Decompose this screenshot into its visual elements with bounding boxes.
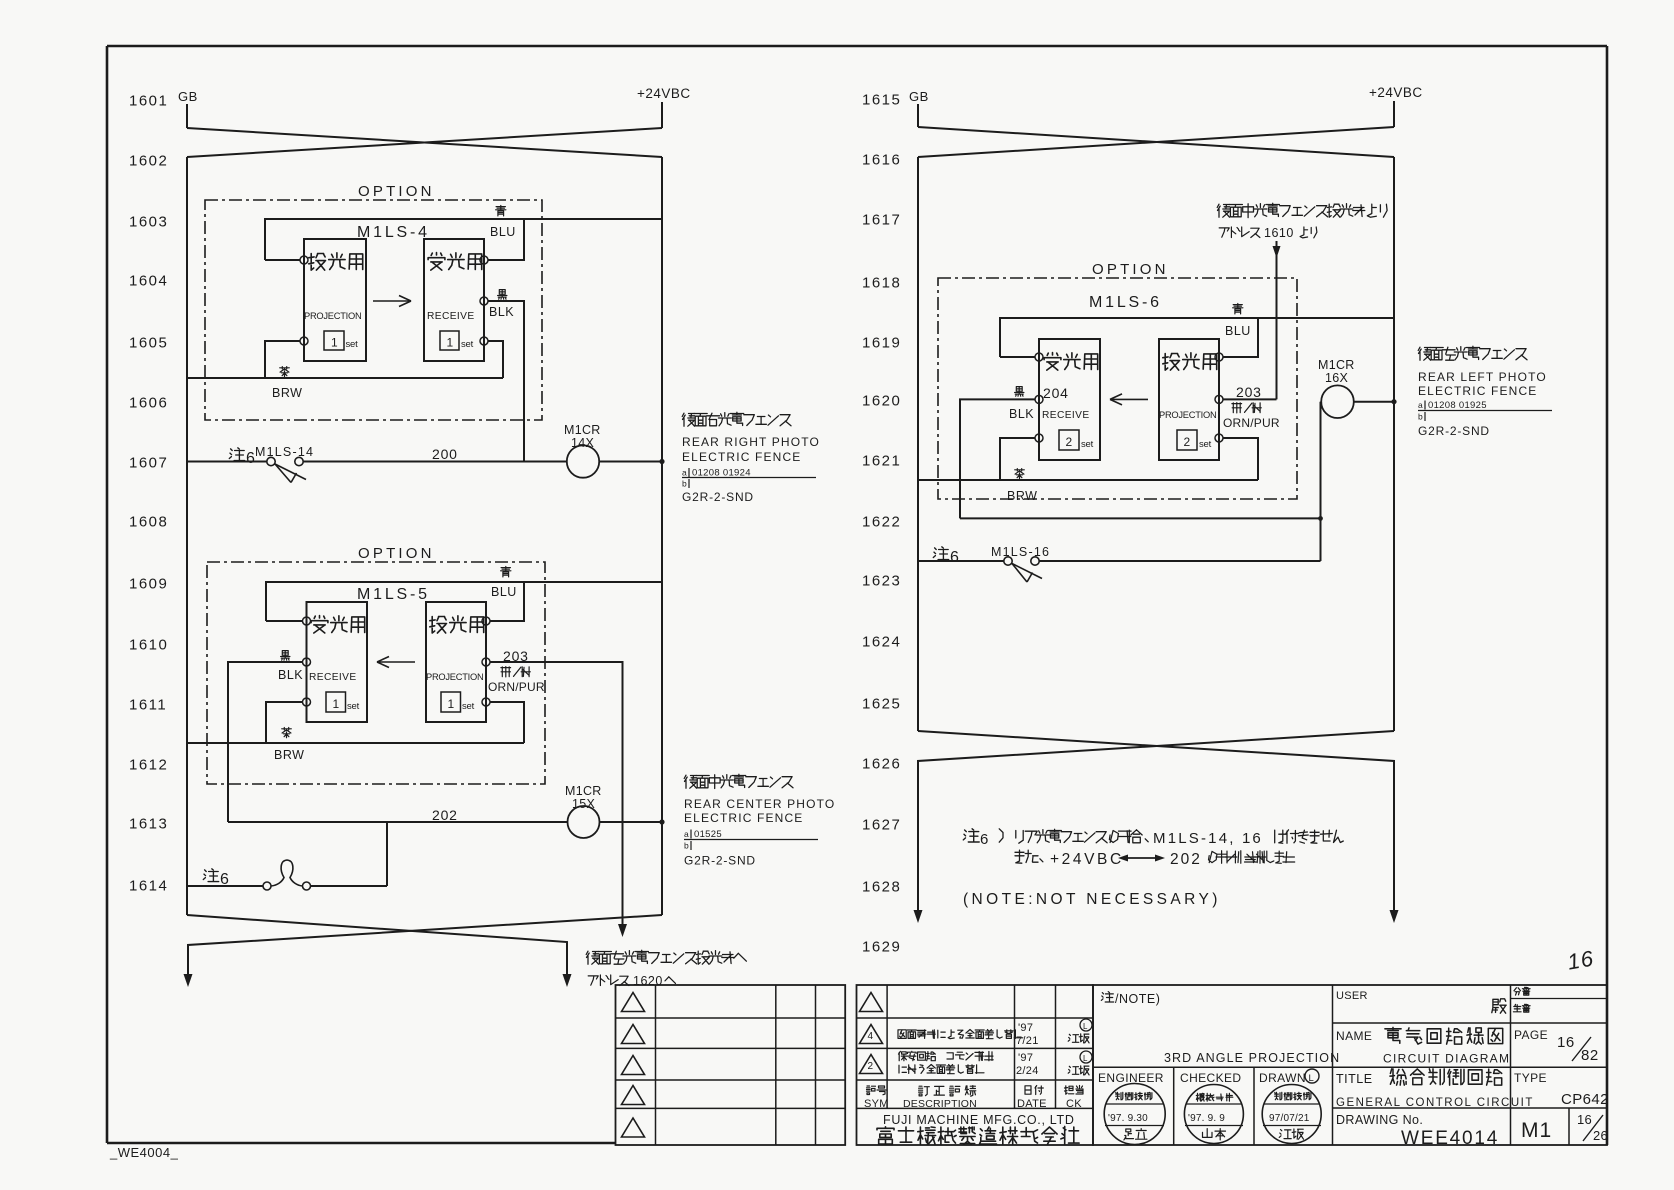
note ref 6 (rung 1607) <box>229 448 244 461</box>
wire BRW 1606 to left rail (M1LS-4) <box>187 377 503 379</box>
wire bottom crossover A (right circuit) <box>918 731 1394 910</box>
pin projection set (M1LS-5) <box>482 698 490 706</box>
svg-text:1622: 1622 <box>862 514 901 531</box>
svg-text:'97. 9.30: '97. 9.30 <box>1108 1113 1148 1124</box>
svg-text:1: 1 <box>333 697 340 711</box>
svg-text:1617: 1617 <box>862 212 901 229</box>
jumper plug with loop (1614) <box>263 882 271 890</box>
svg-text:ELECTRIC FENCE: ELECTRIC FENCE <box>684 811 803 825</box>
wire receive set pin to BRW (M1LS-5) <box>266 702 302 743</box>
svg-text:DRAWN: DRAWN <box>1259 1071 1306 1085</box>
label black BLK (M1LS-6) <box>1015 387 1024 397</box>
sensor block RECEIVE (M1LS-4) <box>424 239 484 361</box>
svg-text:16: 16 <box>1577 1112 1592 1127</box>
pin receive mid 204 BLK (M1LS-6) <box>1035 395 1043 403</box>
wire M1LS-16 to coil feed <box>1039 560 1321 562</box>
svg-text:WEE4014: WEE4014 <box>1401 1128 1499 1149</box>
pin receive top (M1LS-5) <box>303 617 311 625</box>
svg-text:BLU: BLU <box>1225 324 1251 338</box>
wire 202 branch down to 1614 jumper <box>386 822 388 886</box>
svg-text:M1LS-16: M1LS-16 <box>991 545 1050 559</box>
svg-text:204: 204 <box>1043 385 1069 401</box>
svg-text:M1LS-4: M1LS-4 <box>357 224 430 241</box>
svg-text:'97: '97 <box>1018 1022 1033 1034</box>
beam arrow projection to receive (M1LS-4) <box>373 300 411 302</box>
svg-text:200: 200 <box>432 446 458 462</box>
wire right supply rail (left circuit) <box>661 157 663 915</box>
svg-text:26: 26 <box>1593 1128 1608 1143</box>
drawn stamp <box>1262 1085 1321 1144</box>
svg-text:1618: 1618 <box>862 275 901 292</box>
svg-text:ELECTRIC FENCE: ELECTRIC FENCE <box>1418 384 1537 398</box>
svg-text:1620: 1620 <box>633 974 663 988</box>
svg-text:a: a <box>682 468 687 478</box>
svg-text:1: 1 <box>448 697 455 711</box>
label blue BLU (M1LS-5) <box>501 567 511 577</box>
svg-text:1602: 1602 <box>129 153 168 170</box>
svg-text:_WE4004_: _WE4004_ <box>109 1145 179 1160</box>
svg-text:GB: GB <box>909 89 929 104</box>
svg-text:REAR RIGHT PHOTO: REAR RIGHT PHOTO <box>682 435 820 449</box>
svg-text:15X: 15X <box>572 797 596 811</box>
svg-text:/NOTE): /NOTE) <box>1115 992 1160 1006</box>
label blue BLU (M1LS-4) <box>496 206 506 216</box>
sensor block RECEIVE (M1LS-5) <box>307 602 368 722</box>
svg-text:1601: 1601 <box>129 93 168 110</box>
wire coil feed down to 1623 switch <box>1320 402 1322 561</box>
svg-text:1611: 1611 <box>129 697 167 714</box>
svg-text:1603: 1603 <box>129 214 168 231</box>
svg-text:FUJI MACHINE MFG.CO., LTD: FUJI MACHINE MFG.CO., LTD <box>883 1113 1075 1127</box>
wire left rail to jumper (1614) <box>187 885 263 887</box>
svg-text:L: L <box>1083 1054 1088 1063</box>
wire +24VBC stub down (left) <box>661 102 663 128</box>
label black BLK (M1LS-5) <box>281 651 290 661</box>
beam arrow projection to receive (M1LS-5) <box>377 661 415 663</box>
svg-text:202: 202 <box>432 807 458 823</box>
svg-text:+24VBC: +24VBC <box>637 86 691 101</box>
svg-text:2: 2 <box>868 1061 874 1072</box>
svg-text:BRW: BRW <box>1007 489 1037 503</box>
pin projection top (M1LS-6) <box>1215 353 1223 361</box>
wire jumper to 202 branch (1614) <box>311 885 388 887</box>
wire left supply rail (left circuit) <box>186 157 188 915</box>
sensor block RECEIVE (M1LS-6) <box>1039 339 1100 460</box>
left rung numbers 1601-1614 <box>129 93 168 895</box>
svg-text:(NOTE:NOT NECESSARY): (NOTE:NOT NECESSARY) <box>963 891 1221 908</box>
svg-text:G2R-2-SND: G2R-2-SND <box>684 854 756 868</box>
svg-text:BRW: BRW <box>274 748 304 762</box>
svg-text:1: 1 <box>447 336 454 350</box>
svg-text:2: 2 <box>1184 435 1191 449</box>
svg-text:82: 82 <box>1581 1047 1599 1064</box>
wire projection top to 1609 (M1LS-5) BLU <box>490 582 524 621</box>
svg-text:ENGINEER: ENGINEER <box>1098 1071 1164 1085</box>
svg-text:16: 16 <box>1565 945 1595 974</box>
svg-text:PAGE: PAGE <box>1514 1028 1548 1042</box>
junction right rail 1607 <box>659 459 664 464</box>
svg-text:2: 2 <box>1066 435 1073 449</box>
svg-text:GENERAL CONTROL CIRCUIT: GENERAL CONTROL CIRCUIT <box>1336 1097 1534 1109</box>
svg-text:1610: 1610 <box>129 637 168 654</box>
svg-text:CIRCUIT DIAGRAM: CIRCUIT DIAGRAM <box>1383 1052 1510 1066</box>
wire left rail to M1LS-14 <box>187 461 267 463</box>
svg-text:DRAWING No.: DRAWING No. <box>1336 1113 1423 1127</box>
svg-text:14X: 14X <box>571 436 595 450</box>
label brown BRW (M1LS-6) <box>1015 469 1025 479</box>
svg-text:1628: 1628 <box>862 879 901 896</box>
label brown BRW (M1LS-5) <box>282 728 292 738</box>
set count box 2 (M1LS-6 projection) <box>1177 430 1197 450</box>
sensor block PROJECTION (M1LS-4) <box>304 239 366 361</box>
svg-text:BLU: BLU <box>490 225 516 239</box>
svg-text:M1CR: M1CR <box>565 784 602 798</box>
set count box 1 (M1LS-5 receive) <box>326 692 346 712</box>
svg-text:1612: 1612 <box>129 757 168 774</box>
svg-text:OPTION: OPTION <box>358 545 435 562</box>
annotation rear center photo electric fence <box>684 774 793 788</box>
wire bottom crossover B (left circuit) <box>188 915 662 974</box>
svg-text:CHECKED: CHECKED <box>1180 1071 1241 1085</box>
svg-text:a: a <box>684 829 689 839</box>
svg-text:1605: 1605 <box>129 335 168 352</box>
pin receive top (M1LS-6) <box>1035 353 1043 361</box>
wire left supply rail (right circuit) <box>917 157 919 731</box>
svg-text:L: L <box>1083 1022 1088 1031</box>
wire node 202 rung <box>228 821 567 823</box>
svg-text:1614: 1614 <box>129 878 168 895</box>
pin receive set (M1LS-4) <box>480 337 488 345</box>
annotation rear left photo electric fence <box>1418 346 1527 360</box>
wire projection mid 203 to lower-left fence projector (M1LS-5) <box>490 662 623 924</box>
svg-text:PROJECTION: PROJECTION <box>304 311 361 321</box>
wire crossover GB to right rail (right) <box>918 127 1394 157</box>
wire 1609 top feed (M1LS-5) <box>266 582 662 621</box>
svg-text:set: set <box>462 701 475 712</box>
svg-text:3RD ANGLE PROJECTION: 3RD ANGLE PROJECTION <box>1164 1051 1340 1065</box>
wire receive mid 204 BLK down to 1622 (M1LS-6) <box>960 399 1035 518</box>
svg-text:RECEIVE: RECEIVE <box>1042 410 1090 421</box>
svg-text:M1CR: M1CR <box>1318 358 1355 372</box>
svg-text:M1: M1 <box>1521 1119 1552 1142</box>
annotation rear right photo electric fence <box>682 412 791 426</box>
wire receive mid BLK down to node 202 (M1LS-5) <box>228 662 302 822</box>
svg-text:L: L <box>1309 1073 1314 1084</box>
label orange/purple (M1LS-5) <box>501 667 530 677</box>
beam arrow projection to receive (M1LS-6) <box>1110 398 1148 400</box>
svg-text:1625: 1625 <box>862 696 901 713</box>
svg-text:1620: 1620 <box>862 393 901 410</box>
svg-text:202: 202 <box>1170 851 1202 868</box>
svg-text:RECEIVE: RECEIVE <box>309 672 357 683</box>
pin receive top (M1LS-4) <box>480 256 488 264</box>
wire receive top to 1603 (M1LS-4) BLU <box>488 219 524 260</box>
svg-text:set: set <box>1081 439 1094 450</box>
svg-text:1629: 1629 <box>862 939 901 956</box>
wire +24VBC stub down (right) <box>1393 101 1395 127</box>
svg-text:b: b <box>684 841 689 851</box>
engineer stamp <box>1104 1084 1165 1145</box>
svg-text:NAME: NAME <box>1336 1029 1372 1043</box>
svg-text:1610: 1610 <box>1264 226 1294 240</box>
svg-text:M1LS-14: M1LS-14 <box>255 445 314 459</box>
svg-text:b: b <box>682 479 687 489</box>
relay coil M1CR 15X <box>568 806 600 838</box>
revision table left <box>616 985 846 1145</box>
pin receive set (M1LS-6) <box>1035 434 1043 442</box>
svg-text:1613: 1613 <box>129 816 168 833</box>
svg-text:1627: 1627 <box>862 817 901 834</box>
wire projection set pin to BRW (M1LS-5) <box>490 702 524 743</box>
svg-text:M1CR: M1CR <box>564 423 601 437</box>
svg-text:DESCRIPTION: DESCRIPTION <box>903 1098 977 1110</box>
svg-text:G2R-2-SND: G2R-2-SND <box>682 490 754 504</box>
svg-text:SYM: SYM <box>864 1098 889 1110</box>
svg-text:1616: 1616 <box>862 152 901 169</box>
set count box 1 (M1LS-4 receive) <box>440 331 459 350</box>
svg-text:CP642: CP642 <box>1561 1091 1609 1108</box>
svg-text:97/07/21: 97/07/21 <box>1269 1113 1310 1124</box>
svg-text:'97. 9. 9: '97. 9. 9 <box>1188 1113 1225 1124</box>
title block outline <box>1093 985 1607 1145</box>
part number cells <box>1514 987 1530 995</box>
svg-text:TITLE: TITLE <box>1336 1072 1373 1086</box>
wire bottom crossover A (left circuit) <box>187 915 567 974</box>
svg-text:1626: 1626 <box>862 756 901 773</box>
revision row 4 description <box>898 1030 1023 1039</box>
svg-text:+24VBC: +24VBC <box>1369 85 1423 100</box>
svg-text:TYPE: TYPE <box>1514 1071 1547 1085</box>
wire 1603 top feed (M1LS-4) <box>265 219 662 260</box>
pin projection set (M1LS-6) <box>1215 434 1223 442</box>
svg-text:set: set <box>461 339 474 350</box>
svg-text:1609: 1609 <box>129 576 168 593</box>
svg-text:M1LS-6: M1LS-6 <box>1089 294 1162 311</box>
svg-text:'97: '97 <box>1018 1052 1033 1064</box>
svg-text:7/21: 7/21 <box>1016 1035 1039 1047</box>
svg-text:DATE: DATE <box>1017 1098 1047 1110</box>
label blue BLU (M1LS-6) <box>1233 304 1243 314</box>
svg-text:01208 01925: 01208 01925 <box>1428 400 1487 411</box>
annotation from rear center fence projector <box>1217 203 1387 217</box>
label orange/purple (M1LS-6) <box>1232 403 1261 413</box>
wire projection mid 203 to incoming line (M1LS-6) <box>1223 398 1277 400</box>
svg-text:RECEIVE: RECEIVE <box>427 311 475 322</box>
option enclosure box (M1LS-6) <box>938 278 1297 499</box>
pin projection top (M1LS-4) <box>300 256 308 264</box>
svg-text:PROJECTION: PROJECTION <box>1159 410 1216 420</box>
revision row 2 triangle <box>860 1055 883 1074</box>
svg-text:203: 203 <box>1236 384 1262 400</box>
svg-text:CK: CK <box>1066 1098 1082 1110</box>
pin projection bottom (M1LS-4) <box>300 337 308 345</box>
checked stamp <box>1184 1085 1243 1144</box>
note 6 text line 2 <box>1015 850 1043 863</box>
svg-text:2/24: 2/24 <box>1016 1065 1039 1077</box>
wire crossover GB to right rail (left) <box>187 128 662 157</box>
wire projection set pin to BRW (M1LS-6) <box>1223 438 1258 480</box>
junction right rail 1620 <box>1391 399 1396 404</box>
svg-text:6: 6 <box>246 450 255 467</box>
junction right rail 1613 <box>659 819 664 824</box>
wire GB stub down (left) <box>186 104 188 128</box>
svg-text:1615: 1615 <box>862 92 901 109</box>
svg-text:ORN/PUR: ORN/PUR <box>1223 416 1280 430</box>
svg-text:ORN/PUR: ORN/PUR <box>488 680 545 694</box>
wire coil to right rail (1620) <box>1354 401 1394 403</box>
note 6 text line 1 <box>963 829 979 842</box>
wire GB stub down (right) <box>917 104 919 127</box>
limit switch M1LS-16 contact <box>1004 557 1012 565</box>
svg-text:1: 1 <box>331 336 338 350</box>
pin receive mid BLK (M1LS-5) <box>303 658 311 666</box>
svg-text:BLK: BLK <box>1009 407 1034 421</box>
svg-text:REAR LEFT PHOTO: REAR LEFT PHOTO <box>1418 370 1547 384</box>
svg-text:1623: 1623 <box>862 573 901 590</box>
wire coil to right rail (1607) <box>599 461 662 463</box>
svg-text:M1LS-5: M1LS-5 <box>357 586 430 603</box>
svg-text:a: a <box>1418 400 1423 410</box>
note cell label <box>1101 992 1113 1002</box>
svg-text:1621: 1621 <box>862 453 901 470</box>
svg-text:USER: USER <box>1336 990 1368 1002</box>
svg-text:01525: 01525 <box>694 829 722 840</box>
svg-text:set: set <box>346 339 359 350</box>
wire receive set pin to BRW (M1LS-6) <box>1000 438 1035 480</box>
svg-text:ELECTRIC FENCE: ELECTRIC FENCE <box>682 450 801 464</box>
option enclosure box (M1LS-4) <box>205 200 542 420</box>
set count box 1 (M1LS-5 projection) <box>441 692 461 712</box>
revision table right <box>857 985 1094 1145</box>
svg-text:REAR CENTER PHOTO: REAR CENTER PHOTO <box>684 797 835 811</box>
label black BLK (M1LS-4) <box>498 290 507 300</box>
svg-text:set: set <box>347 701 360 712</box>
svg-text:G2R-2-SND: G2R-2-SND <box>1418 424 1490 438</box>
svg-text:4: 4 <box>868 1031 874 1042</box>
pin projection mid 203 (M1LS-5) <box>482 658 490 666</box>
svg-text:16: 16 <box>1557 1034 1575 1051</box>
option enclosure box (M1LS-5) <box>207 562 545 784</box>
svg-text:203: 203 <box>503 648 529 664</box>
svg-text:1619: 1619 <box>862 335 901 352</box>
svg-text:+24VBC: +24VBC <box>1050 851 1124 868</box>
sensor block PROJECTION (M1LS-5) <box>426 602 486 722</box>
svg-text:1608: 1608 <box>129 514 168 531</box>
wire 1622 BLK to coil feed <box>960 517 1321 519</box>
pin receive mid BLK (M1LS-4) <box>480 297 488 305</box>
set count box 1 (M1LS-4 projection) <box>324 331 344 350</box>
junction 1622 to coil feed <box>1318 516 1323 521</box>
pin receive set (M1LS-5) <box>303 698 311 706</box>
svg-text:6: 6 <box>950 549 959 566</box>
wire crossover +24VBC to left rail (left) <box>187 128 662 157</box>
sensor block PROJECTION (M1LS-6) <box>1159 339 1219 460</box>
set count box 2 (M1LS-6 receive) <box>1059 430 1079 450</box>
wire bottom crossover B (right circuit) <box>918 731 1394 910</box>
wire BRW 1612 to left rail (M1LS-5) <box>187 742 524 744</box>
svg-text:1606: 1606 <box>129 395 168 412</box>
svg-text:BLK: BLK <box>489 305 514 319</box>
svg-text:BLK: BLK <box>278 668 303 682</box>
annotation to rear left fence projector <box>586 950 746 964</box>
svg-text:BRW: BRW <box>272 386 302 400</box>
note ref 6 (rung 1623) <box>933 547 948 560</box>
svg-text:BLU: BLU <box>491 585 517 599</box>
right rung numbers 1615-1629 <box>862 92 901 956</box>
revision row 4 triangle <box>860 1025 883 1044</box>
note ref 6 (rung 1614) <box>203 869 218 882</box>
wire left rail to M1LS-16 <box>918 560 1004 562</box>
svg-text:1604: 1604 <box>129 273 168 290</box>
wire receive set pin to BRW (M1LS-4) <box>488 341 503 378</box>
pin projection top (M1LS-5) <box>482 617 490 625</box>
svg-text:16X: 16X <box>1325 371 1349 385</box>
pin projection mid 203 (M1LS-6) <box>1215 395 1223 403</box>
relay coil M1CR 14X <box>567 445 599 477</box>
revision row 2 description <box>899 1051 936 1060</box>
wire projection bottom to BRW (M1LS-4) <box>265 341 300 378</box>
svg-text:OPTION: OPTION <box>1092 261 1169 278</box>
svg-text:1607: 1607 <box>129 455 168 472</box>
svg-text:b: b <box>1418 412 1423 422</box>
revision header row <box>867 1086 887 1095</box>
svg-text:GB: GB <box>178 89 198 104</box>
wire 1619 top feed (M1LS-6) <box>1000 318 1394 357</box>
svg-text:set: set <box>1199 439 1212 450</box>
svg-text:1624: 1624 <box>862 634 901 651</box>
wire receive mid to node 200 (M1LS-4) BLK <box>488 301 524 462</box>
wire crossover +24VBC to left rail (right) <box>918 127 1394 157</box>
label brown BRW (M1LS-4) <box>280 367 290 377</box>
wire right supply rail (right circuit) <box>1393 157 1395 731</box>
wire projection top to 1619 (M1LS-6) BLU <box>1223 318 1258 357</box>
wire BRW 1621 to left rail (M1LS-6) <box>918 479 1258 481</box>
wire M1LS-14 to coil, node 200 <box>303 461 567 463</box>
wire incoming from address 1610 <box>1276 241 1278 399</box>
svg-text:M1LS-14,: M1LS-14, <box>1153 830 1236 847</box>
wire coil to right rail (1613) <box>600 821 663 823</box>
svg-text:OPTION: OPTION <box>358 183 435 200</box>
relay coil M1CR 16X <box>1321 385 1354 418</box>
svg-text:6: 6 <box>980 831 988 848</box>
limit switch M1LS-14 contact <box>267 457 275 465</box>
svg-text:16: 16 <box>1242 830 1263 847</box>
svg-text:PROJECTION: PROJECTION <box>426 672 483 682</box>
